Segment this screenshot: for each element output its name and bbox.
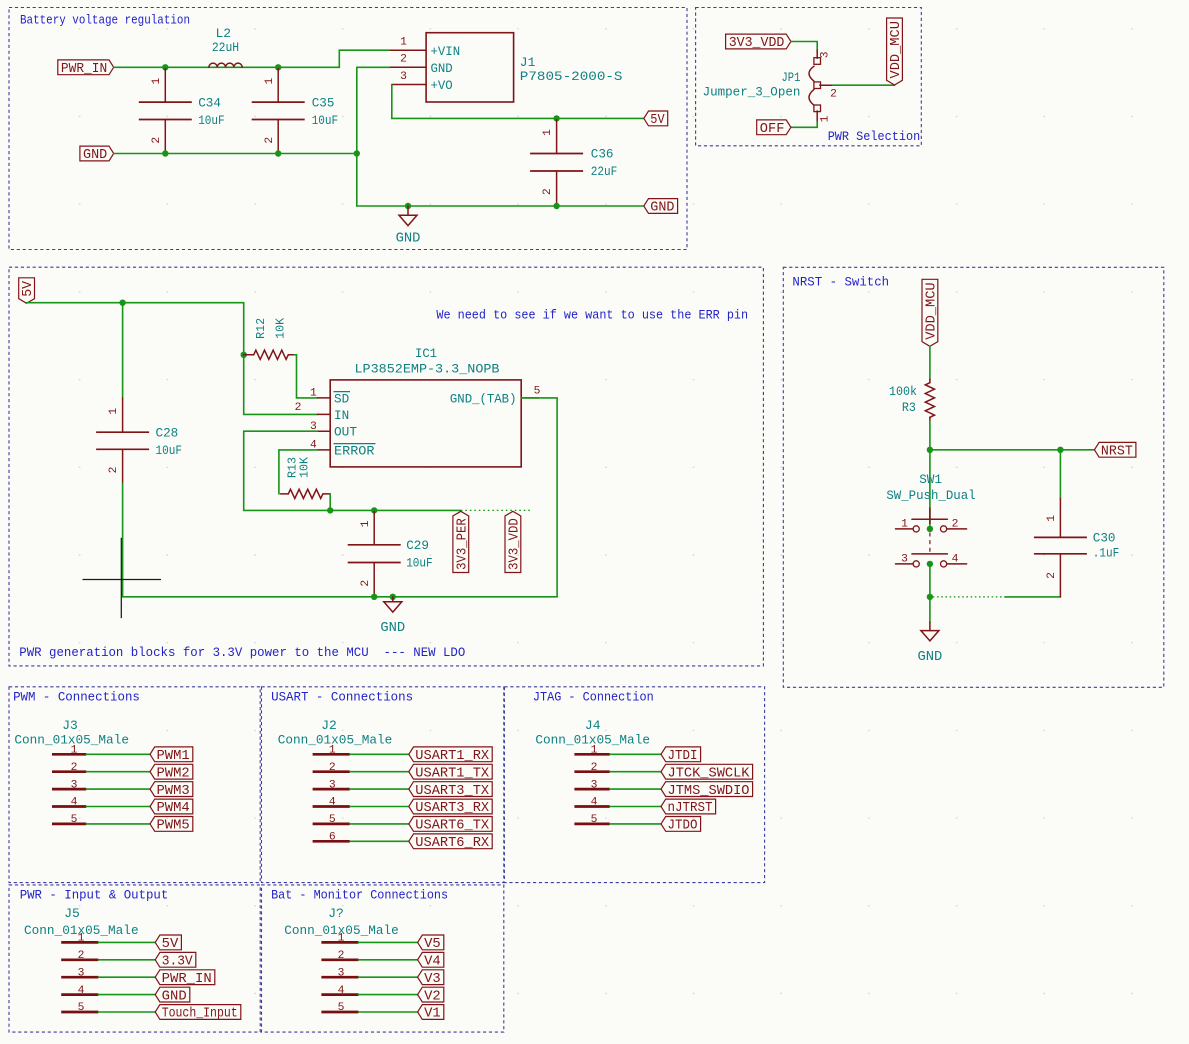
svg-text:OUT: OUT bbox=[334, 425, 357, 440]
wire to C30 bottom bbox=[1005, 596, 1060, 598]
svg-text:PWM4: PWM4 bbox=[157, 801, 190, 816]
global label PWM4 bbox=[150, 799, 193, 816]
svg-text:C28: C28 bbox=[156, 425, 179, 440]
svg-text:GND: GND bbox=[83, 148, 107, 163]
wire SW1 to GND node bbox=[929, 564, 931, 597]
svg-text:22uF: 22uF bbox=[591, 164, 618, 179]
ldo IC1 LP3852EMP-3.3_NOPB bbox=[295, 346, 541, 467]
wire GND row (block C) bbox=[123, 596, 557, 598]
svg-text:R3: R3 bbox=[902, 400, 916, 415]
svg-text:C34: C34 bbox=[198, 95, 221, 110]
svg-text:Jumper_3_Open: Jumper_3_Open bbox=[703, 85, 801, 100]
node GND riser bbox=[354, 150, 360, 156]
wire R3 to NRST node bbox=[929, 421, 931, 450]
resistor R3 bbox=[889, 379, 935, 421]
svg-text:USART3_RX: USART3_RX bbox=[415, 801, 489, 816]
global label PWM3 bbox=[150, 782, 193, 799]
wire J4 pin 4 bbox=[610, 806, 661, 808]
svg-text:GND: GND bbox=[650, 201, 674, 216]
sheet box: PWR Selection bbox=[696, 8, 922, 146]
svg-text:4: 4 bbox=[591, 797, 598, 809]
svg-text:5V: 5V bbox=[21, 280, 36, 297]
wire J4 pin 1 bbox=[610, 753, 661, 755]
sheet box: PWR generation bbox=[9, 267, 763, 666]
node GND / C35 bbox=[275, 150, 281, 156]
svg-text:NRST - Switch: NRST - Switch bbox=[792, 275, 889, 290]
capacitor C35 bbox=[252, 69, 339, 153]
global label PWM1 bbox=[150, 747, 193, 764]
svg-text:GND: GND bbox=[431, 61, 453, 76]
global label USART1_TX bbox=[409, 764, 492, 781]
svg-text:2: 2 bbox=[151, 137, 163, 144]
wire GND row bbox=[114, 153, 357, 155]
node R13 / rail bbox=[327, 507, 333, 513]
svg-text:C36: C36 bbox=[591, 147, 614, 162]
connector J5 Conn_01x05_Male bbox=[24, 906, 139, 1014]
node PWR_IN / C34 bbox=[162, 64, 168, 70]
svg-text:C30: C30 bbox=[1093, 531, 1116, 546]
global label USART3_RX bbox=[409, 799, 492, 816]
connector J2 Conn_01x05_Male bbox=[278, 718, 393, 844]
svg-text:1: 1 bbox=[78, 933, 85, 945]
svg-text:LP3852EMP-3.3_NOPB: LP3852EMP-3.3_NOPB bbox=[355, 362, 500, 377]
wire PWR_IN to J1 pin1 bbox=[114, 50, 391, 67]
capacitor C28 bbox=[96, 303, 182, 483]
svg-text:1: 1 bbox=[901, 519, 908, 531]
svg-text:IC1: IC1 bbox=[415, 346, 437, 361]
global label VDD_MCU (block D) bbox=[922, 279, 940, 346]
svg-text:1: 1 bbox=[264, 77, 276, 84]
svg-text:10K: 10K bbox=[299, 457, 312, 478]
svg-text:USART3_TX: USART3_TX bbox=[415, 784, 489, 799]
wire J2 pin 3 bbox=[350, 788, 409, 790]
svg-text:2: 2 bbox=[542, 188, 554, 195]
svg-text:2: 2 bbox=[78, 950, 85, 962]
wire J4 pin 5 bbox=[610, 823, 661, 825]
svg-text:PWM - Connections: PWM - Connections bbox=[13, 689, 140, 704]
resistor R13 bbox=[281, 457, 331, 499]
ground GND (block A) bbox=[396, 206, 421, 247]
svg-text:3: 3 bbox=[820, 51, 832, 58]
svg-text:5: 5 bbox=[78, 1002, 85, 1014]
wire 5V riser to IN bbox=[244, 303, 318, 415]
wire J2 pin 2 bbox=[350, 771, 409, 773]
wire bottom GND row bbox=[357, 205, 644, 207]
svg-text:USART - Connections: USART - Connections bbox=[271, 689, 413, 704]
sheet box: Bat - Monitor Connections bbox=[262, 885, 504, 1032]
wire rail to C29 bbox=[330, 509, 461, 511]
global label V2 bbox=[418, 987, 444, 1004]
global label USART1_RX bbox=[409, 747, 492, 764]
svg-text:2: 2 bbox=[71, 762, 78, 774]
wire NRST row bbox=[930, 449, 1095, 451]
node SW1 / C30 / GND bbox=[927, 594, 933, 600]
svg-text:R12: R12 bbox=[255, 318, 268, 339]
wire J2 pin 5 bbox=[350, 823, 409, 825]
svg-text:1: 1 bbox=[1046, 515, 1058, 522]
svg-text:2: 2 bbox=[591, 762, 598, 774]
svg-text:GND: GND bbox=[162, 989, 187, 1004]
svg-text:USART6_TX: USART6_TX bbox=[415, 819, 489, 834]
wire 3V3_VDD to JP1 pin3 bbox=[791, 42, 817, 51]
svg-text:USART1_TX: USART1_TX bbox=[415, 766, 489, 781]
global label V4 bbox=[418, 952, 444, 969]
svg-text:3: 3 bbox=[329, 779, 336, 791]
svg-text:3: 3 bbox=[901, 554, 908, 566]
svg-text:4: 4 bbox=[952, 554, 959, 566]
connector J3 Conn_01x05_Male bbox=[14, 718, 129, 826]
wire J2 pin 1 bbox=[350, 753, 409, 755]
svg-text:2: 2 bbox=[338, 950, 345, 962]
svg-text:L2: L2 bbox=[215, 26, 231, 41]
crosshair marker bbox=[83, 538, 162, 618]
global label 3V3_PER (vertical) bbox=[453, 511, 471, 572]
node C36 / GND bbox=[553, 203, 559, 209]
svg-text:C29: C29 bbox=[406, 538, 429, 553]
wire OUT to 3V3 rail bbox=[244, 431, 331, 510]
wire R12 to SD pin bbox=[294, 355, 317, 398]
svg-text:Battery voltage regulation: Battery voltage regulation bbox=[20, 13, 190, 28]
capacitor C29 bbox=[348, 512, 433, 597]
global label PWR_IN bbox=[155, 970, 215, 987]
global label USART6_TX bbox=[409, 817, 492, 834]
wire VDD_MCU to R3 bbox=[929, 346, 931, 379]
svg-text:P7805-2000-S: P7805-2000-S bbox=[520, 69, 623, 84]
svg-text:JTAG - Connection: JTAG - Connection bbox=[533, 689, 654, 704]
svg-text:2: 2 bbox=[329, 762, 336, 774]
svg-text:V5: V5 bbox=[424, 937, 441, 952]
svg-text:3: 3 bbox=[78, 967, 85, 979]
svg-text:5: 5 bbox=[329, 814, 336, 826]
sheet box: NRST - Switch bbox=[783, 267, 1164, 687]
svg-text:Bat - Monitor Connections: Bat - Monitor Connections bbox=[271, 887, 448, 902]
svg-text:1: 1 bbox=[108, 408, 120, 415]
svg-text:1: 1 bbox=[310, 388, 317, 400]
svg-text:100k: 100k bbox=[889, 384, 917, 399]
svg-text:PWR_IN: PWR_IN bbox=[61, 62, 107, 77]
wire ERROR to R13 bbox=[279, 450, 318, 494]
resistor R12 bbox=[244, 318, 294, 360]
svg-text:JP1: JP1 bbox=[782, 70, 801, 85]
svg-text:VDD_MCU: VDD_MCU bbox=[925, 282, 940, 339]
svg-text:SW_Push_Dual: SW_Push_Dual bbox=[886, 488, 975, 503]
global label 5V (vertical) bbox=[19, 278, 37, 304]
sheet box: USART - Connections bbox=[262, 687, 504, 883]
svg-text:.1uF: .1uF bbox=[1093, 545, 1120, 560]
svg-text:J2: J2 bbox=[321, 718, 337, 733]
svg-text:V1: V1 bbox=[424, 1007, 441, 1022]
svg-text:2: 2 bbox=[295, 402, 302, 414]
node 5V / C36 bbox=[553, 115, 559, 121]
svg-text:PWM5: PWM5 bbox=[157, 819, 190, 834]
wire J? pin 2 bbox=[359, 959, 418, 961]
svg-text:4: 4 bbox=[71, 797, 78, 809]
global label 3.3V bbox=[155, 952, 196, 969]
wire J5 pin 2 bbox=[98, 959, 155, 961]
wire JP1 pin1 to OFF bbox=[791, 122, 817, 127]
wire J3 pin 2 bbox=[86, 771, 150, 773]
svg-text:3: 3 bbox=[338, 967, 345, 979]
svg-text:PWM1: PWM1 bbox=[157, 749, 190, 764]
global label PWM5 bbox=[150, 817, 193, 834]
global label USART6_RX bbox=[409, 834, 492, 851]
global label PWM2 bbox=[150, 764, 193, 781]
node GND symbol (block C) bbox=[390, 594, 396, 600]
svg-text:5V: 5V bbox=[650, 113, 665, 128]
svg-text:nJTRST: nJTRST bbox=[668, 801, 713, 816]
wire J? pin 1 bbox=[359, 941, 418, 943]
svg-text:GND: GND bbox=[396, 232, 421, 247]
global label V5 bbox=[418, 935, 444, 952]
global label GND bbox=[155, 987, 190, 1004]
capacitor C36 bbox=[530, 120, 617, 206]
svg-text:3V3_VDD: 3V3_VDD bbox=[729, 36, 785, 51]
svg-text:3: 3 bbox=[400, 71, 407, 83]
wire J3 pin 5 bbox=[86, 823, 150, 825]
global label V3 bbox=[418, 970, 444, 987]
svg-text:PWR_IN: PWR_IN bbox=[162, 972, 212, 987]
wire J3 pin 3 bbox=[86, 788, 150, 790]
wire J2 pin 6 bbox=[350, 840, 409, 842]
svg-text:V2: V2 bbox=[424, 989, 441, 1004]
wire R13 to rail bbox=[329, 494, 331, 511]
svg-text:SW1: SW1 bbox=[919, 472, 942, 487]
global label 5V bbox=[155, 935, 181, 952]
connector J4 Conn_01x05_Male bbox=[535, 718, 650, 826]
svg-text:V4: V4 bbox=[424, 955, 441, 970]
node SW1 bottom bbox=[927, 561, 933, 567]
global label V1 bbox=[418, 1005, 444, 1022]
svg-text:OFF: OFF bbox=[760, 122, 785, 137]
svg-text:1: 1 bbox=[151, 77, 163, 84]
svg-text:1: 1 bbox=[400, 37, 407, 49]
svg-text:V3: V3 bbox=[424, 972, 441, 987]
wire 5V row bbox=[27, 302, 244, 304]
svg-text:2: 2 bbox=[264, 137, 276, 144]
node C29 / GND bbox=[371, 594, 377, 600]
wire J? pin 3 bbox=[359, 976, 418, 978]
svg-text:10uF: 10uF bbox=[406, 556, 433, 571]
svg-text:1: 1 bbox=[591, 745, 598, 757]
wire J5 pin 5 bbox=[98, 1011, 155, 1013]
svg-text:4: 4 bbox=[338, 985, 345, 997]
svg-text:5: 5 bbox=[591, 814, 598, 826]
node GND symbol bbox=[405, 203, 411, 209]
global label JTDI bbox=[661, 747, 701, 764]
svg-text:GND: GND bbox=[917, 650, 942, 665]
global label 5V (right) bbox=[644, 111, 668, 128]
wire dotted to C30 bbox=[933, 596, 1005, 598]
wire J3 pin 4 bbox=[86, 806, 150, 808]
sheet box: JTAG - Connection bbox=[504, 687, 764, 883]
svg-text:10uF: 10uF bbox=[156, 443, 183, 458]
global label OFF bbox=[757, 120, 791, 137]
node GND / C34 bbox=[162, 150, 168, 156]
svg-text:Touch_Input: Touch_Input bbox=[162, 1007, 238, 1022]
global label GND (left) bbox=[80, 146, 114, 163]
svg-text:5: 5 bbox=[338, 1002, 345, 1014]
ground GND (block C) bbox=[380, 597, 405, 636]
wire J2 pin 4 bbox=[350, 806, 409, 808]
regulator J1 P7805-2000-S bbox=[391, 33, 623, 102]
wire JP1 pin2 to VDD_MCU bbox=[833, 84, 895, 86]
svg-text:3: 3 bbox=[591, 779, 598, 791]
sheet box: PWR - Input & Output bbox=[9, 885, 260, 1032]
node NRST / C30 bbox=[1057, 447, 1063, 453]
svg-text:GND: GND bbox=[380, 621, 405, 636]
svg-text:5: 5 bbox=[71, 814, 78, 826]
svg-text:3.3V: 3.3V bbox=[162, 955, 194, 970]
svg-text:1: 1 bbox=[360, 520, 372, 527]
wire J5 pin 1 bbox=[98, 941, 155, 943]
svg-text:+VIN: +VIN bbox=[431, 44, 461, 59]
svg-text:PWM3: PWM3 bbox=[157, 784, 190, 799]
svg-text:2: 2 bbox=[1046, 572, 1058, 579]
wire J1 pin3 to 5V bbox=[392, 85, 644, 119]
jumper JP1 Jumper_3_Open bbox=[703, 50, 837, 122]
node PWR_IN / C35 bbox=[275, 64, 281, 70]
global label USART3_TX bbox=[409, 782, 492, 799]
svg-text:IN: IN bbox=[334, 408, 349, 423]
svg-text:+VO: +VO bbox=[431, 78, 453, 93]
wire J? pin 5 bbox=[359, 1011, 418, 1013]
wire NRST to SW1 bbox=[929, 450, 931, 529]
svg-text:3V3_VDD: 3V3_VDD bbox=[508, 518, 523, 570]
svg-text:C35: C35 bbox=[312, 95, 335, 110]
svg-text:4: 4 bbox=[78, 985, 85, 997]
wire J5 pin 3 bbox=[98, 976, 155, 978]
svg-text:PWR generation blocks for 3.3V: PWR generation blocks for 3.3V power to … bbox=[19, 645, 465, 660]
svg-text:1: 1 bbox=[820, 115, 832, 122]
svg-text:JTDO: JTDO bbox=[668, 819, 698, 834]
svg-text:SD: SD bbox=[334, 391, 349, 406]
svg-text:USART1_RX: USART1_RX bbox=[415, 749, 489, 764]
global label NRST bbox=[1094, 442, 1136, 459]
global label 3V3_VDD (vertical) bbox=[505, 511, 523, 572]
node rail / C29 bbox=[371, 507, 377, 513]
wire GND stem (block D) bbox=[929, 597, 931, 622]
svg-text:6: 6 bbox=[329, 832, 336, 844]
inductor L2 bbox=[209, 26, 242, 67]
svg-text:J5: J5 bbox=[64, 906, 80, 921]
svg-text:GND_(TAB): GND_(TAB) bbox=[450, 391, 517, 406]
global label JTCK_SWCLK bbox=[661, 764, 753, 781]
svg-text:JTCK_SWCLK: JTCK_SWCLK bbox=[668, 766, 751, 781]
svg-text:1: 1 bbox=[542, 129, 554, 136]
global label nJTRST bbox=[661, 799, 716, 816]
svg-text:JTDI: JTDI bbox=[668, 749, 698, 764]
wire J? pin 4 bbox=[359, 994, 418, 996]
svg-text:USART6_RX: USART6_RX bbox=[415, 836, 489, 851]
svg-text:PWR - Input & Output: PWR - Input & Output bbox=[20, 887, 169, 902]
wire J4 pin 2 bbox=[610, 771, 661, 773]
global label PWR_IN bbox=[58, 60, 114, 77]
global label JTMS_SWDIO bbox=[661, 782, 753, 799]
capacitor C34 bbox=[139, 69, 225, 153]
svg-text:VDD_MCU: VDD_MCU bbox=[889, 21, 904, 78]
wire J5 pin 4 bbox=[98, 994, 155, 996]
svg-text:PWM2: PWM2 bbox=[157, 766, 190, 781]
svg-text:3V3_PER: 3V3_PER bbox=[455, 518, 470, 570]
svg-text:2: 2 bbox=[360, 580, 372, 587]
svg-text:1: 1 bbox=[329, 745, 336, 757]
svg-text:2: 2 bbox=[830, 88, 837, 100]
svg-text:10uF: 10uF bbox=[312, 113, 339, 128]
ground GND (block D) bbox=[917, 622, 942, 665]
wire pin5 GND return bbox=[521, 398, 557, 597]
node R3 / NRST bbox=[927, 447, 933, 453]
wire J3 pin 1 bbox=[86, 753, 150, 755]
svg-text:J4: J4 bbox=[585, 718, 601, 733]
svg-text:5V: 5V bbox=[162, 937, 180, 952]
global label VDD_MCU (block B) bbox=[887, 18, 905, 85]
svg-text:J?: J? bbox=[328, 906, 344, 921]
svg-text:JTMS_SWDIO: JTMS_SWDIO bbox=[668, 784, 750, 799]
global label GND (right) bbox=[644, 199, 678, 216]
svg-text:PWR Selection: PWR Selection bbox=[828, 129, 921, 144]
svg-text:2: 2 bbox=[400, 54, 407, 66]
wire C28 to GND row bbox=[122, 483, 124, 597]
sheet box: PWM - Connections bbox=[9, 687, 260, 883]
svg-text:10uF: 10uF bbox=[198, 113, 225, 128]
svg-text:We need to see if we want to u: We need to see if we want to use the ERR… bbox=[436, 308, 748, 323]
svg-text:4: 4 bbox=[329, 797, 336, 809]
connector J? Conn_01x05_Male bbox=[284, 906, 399, 1014]
svg-text:1: 1 bbox=[71, 745, 78, 757]
svg-text:J3: J3 bbox=[62, 718, 78, 733]
svg-text:1: 1 bbox=[338, 933, 345, 945]
svg-text:22uH: 22uH bbox=[212, 40, 239, 55]
capacitor C30 bbox=[1034, 450, 1119, 597]
sheet box: Battery voltage regulation bbox=[9, 8, 687, 250]
svg-text:3: 3 bbox=[71, 779, 78, 791]
svg-text:2: 2 bbox=[952, 519, 959, 531]
svg-text:ERROR: ERROR bbox=[334, 443, 375, 458]
wire J4 pin 3 bbox=[610, 788, 661, 790]
wire J1 pin2 to GND riser bbox=[357, 67, 391, 206]
svg-text:2: 2 bbox=[108, 467, 120, 474]
node SW1 top bbox=[927, 526, 933, 532]
global label Touch_Input bbox=[155, 1005, 241, 1022]
global label JTDO bbox=[661, 817, 701, 834]
svg-text:NRST: NRST bbox=[1101, 445, 1133, 460]
node 5V / C28 bbox=[119, 300, 125, 306]
global label 3V3_VDD bbox=[726, 34, 791, 51]
node R12 tap bbox=[241, 352, 247, 358]
svg-text:5: 5 bbox=[534, 385, 541, 397]
svg-text:10K: 10K bbox=[275, 318, 288, 339]
wire dotted rail stub bbox=[461, 509, 531, 511]
switch SW1 SW_Push_Dual bbox=[886, 472, 975, 567]
